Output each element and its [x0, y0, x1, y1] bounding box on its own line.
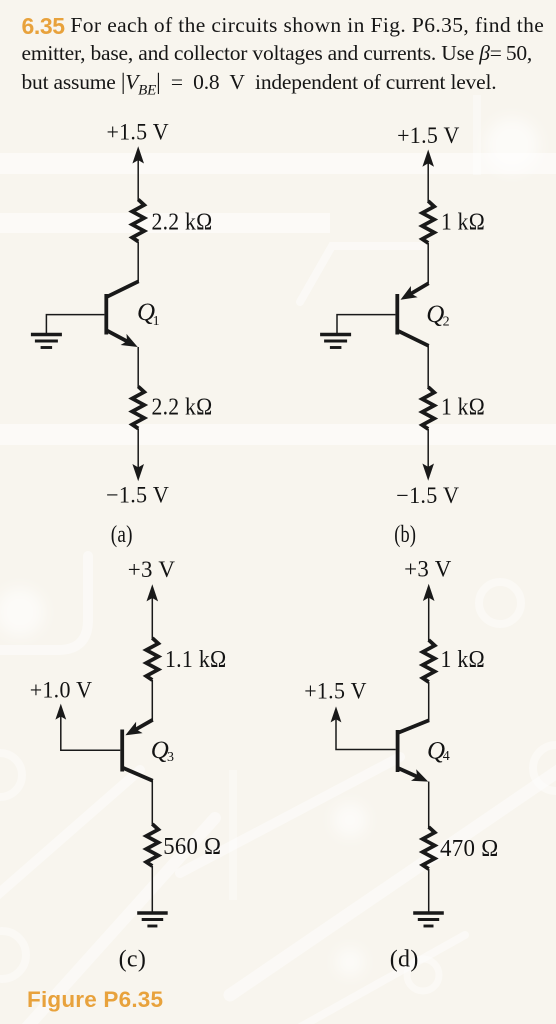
- svg-text:−1.5 V: −1.5 V: [106, 483, 169, 508]
- wire collector to resistor (c): [151, 781, 153, 825]
- transistor Q1 (npn): [104, 281, 138, 347]
- svg-text:470 Ω: 470 Ω: [440, 836, 499, 862]
- svg-text:2.2 kΩ: 2.2 kΩ: [152, 210, 213, 236]
- svg-text:(a): (a): [111, 522, 133, 548]
- wire collector to resistor (b): [427, 346, 429, 388]
- wire emitter to resistor (d): [428, 782, 430, 828]
- wire resistor to collector (a): [137, 242, 139, 282]
- wire resistor to emitter (b): [427, 243, 429, 283]
- svg-text:+1.0 V: +1.0 V: [30, 678, 93, 703]
- svg-text:+1.5 V: +1.5 V: [106, 120, 169, 145]
- wire base with up arrow to +1.0 V (c): [55, 704, 120, 751]
- wire base (a): [46, 315, 104, 334]
- svg-text:1 kΩ: 1 kΩ: [441, 647, 486, 673]
- transistor Q2 (pnp): [395, 283, 428, 346]
- wire resistor to ground (c): [151, 866, 153, 912]
- transistor Q3 (pnp): [120, 720, 152, 781]
- transistor Q4 (npn): [396, 720, 429, 781]
- resistor 1 k-ohm collector (d): [423, 640, 435, 682]
- ground (a): [31, 335, 62, 348]
- wire emitter to resistor (a): [137, 347, 139, 387]
- resistor 2.2 k-ohm collector (a): [132, 200, 144, 242]
- svg-text:+3 V: +3 V: [128, 557, 176, 582]
- wire resistor to ground (d): [428, 869, 430, 912]
- resistor 560 ohm collector (c): [146, 824, 158, 866]
- wire collector supply with up arrow (d): [423, 584, 435, 641]
- ground (d): [413, 913, 444, 926]
- svg-text:2: 2: [443, 314, 450, 329]
- problem statement text: [22, 10, 545, 105]
- svg-text:+1.5 V: +1.5 V: [304, 679, 367, 704]
- resistor 1.1 k-ohm emitter (c): [146, 638, 158, 680]
- resistor 1 k-ohm collector (b): [422, 387, 434, 429]
- resistor 1 k-ohm emitter (b): [422, 201, 434, 243]
- svg-text:3: 3: [167, 750, 174, 765]
- wire resistor to collector (d): [428, 682, 430, 721]
- svg-text:(b): (b): [394, 522, 416, 548]
- wire resistor to emitter (c): [151, 680, 153, 720]
- svg-text:1: 1: [153, 314, 160, 329]
- svg-text:2.2 kΩ: 2.2 kΩ: [152, 395, 213, 421]
- svg-text:4: 4: [443, 749, 450, 764]
- resistor 470 ohm emitter (d): [423, 827, 435, 869]
- wire emitter supply with up arrow (c): [147, 584, 159, 638]
- svg-text:(d): (d): [390, 947, 419, 973]
- wire collector supply with up arrow (a): [132, 146, 144, 200]
- svg-text:+1.5 V: +1.5 V: [397, 123, 460, 148]
- svg-text:1 kΩ: 1 kΩ: [441, 395, 485, 421]
- svg-text:+3 V: +3 V: [404, 557, 452, 582]
- svg-text:(c): (c): [119, 947, 147, 973]
- svg-text:−1.5 V: −1.5 V: [396, 483, 459, 508]
- wire emitter supply with up arrow (b): [422, 150, 434, 203]
- wire base (b): [337, 315, 395, 334]
- svg-text:560 Ω: 560 Ω: [163, 834, 221, 860]
- wire base with up arrow to +1.5 V (d): [331, 706, 396, 749]
- wire to -1.5 V with down arrow (a): [132, 429, 144, 482]
- ground (b): [320, 335, 351, 348]
- svg-text:1.1 kΩ: 1.1 kΩ: [165, 647, 227, 673]
- wire to -1.5 V with down arrow (b): [422, 429, 434, 481]
- figure caption: [27, 987, 163, 1013]
- ground (c): [137, 913, 168, 926]
- resistor 2.2 k-ohm emitter (a): [132, 387, 144, 429]
- svg-text:1 kΩ: 1 kΩ: [441, 210, 485, 236]
